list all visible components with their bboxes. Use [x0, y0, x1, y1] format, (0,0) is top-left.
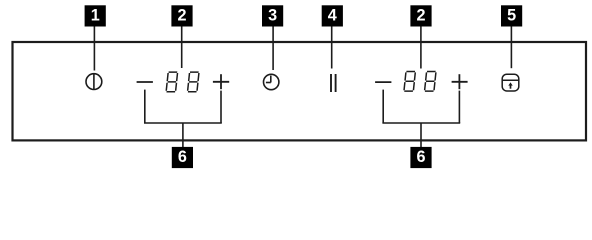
- bracket left: stem to label 6: [182, 123, 184, 147]
- callout label 2 (right): [410, 5, 431, 26]
- callout label 5: [501, 5, 522, 26]
- bracket right: stem to label 6: [420, 123, 422, 147]
- bracket right: minus branch: [382, 90, 384, 123]
- leader line from label 4 to pause symbol: [331, 26, 333, 68]
- left seven-segment display digit 8 (units): [188, 72, 199, 92]
- bracket left: plus branch: [220, 91, 222, 123]
- power (on/off) sensor icon: [86, 74, 102, 90]
- callout label 6 (right): [410, 147, 431, 168]
- leader line from label 2 (right) to right display: [420, 26, 422, 68]
- bracket right: horizontal bar: [382, 122, 460, 124]
- svg-text:2: 2: [177, 6, 186, 24]
- bracket left: horizontal bar: [144, 122, 222, 124]
- svg-text:3: 3: [268, 6, 277, 24]
- bracket right: plus branch: [458, 91, 460, 123]
- right seven-segment display digit 8 (tens): [404, 72, 415, 92]
- bracket left: minus branch: [144, 90, 146, 123]
- minus sensor (left): [137, 81, 153, 83]
- minus sensor (right): [375, 81, 391, 83]
- left seven-segment display digit 8 (tens): [166, 72, 177, 92]
- svg-text:6: 6: [178, 148, 187, 166]
- leader line from label 2 (left) to left display: [181, 26, 183, 68]
- svg-text:1: 1: [91, 6, 100, 24]
- svg-text:6: 6: [416, 148, 425, 166]
- leader line from label 3 to timer symbol: [272, 26, 274, 70]
- svg-text:2: 2: [416, 6, 425, 24]
- leader line from label 1 to power symbol: [93, 26, 95, 70]
- svg-text:5: 5: [507, 6, 516, 24]
- key lock arrow head: [508, 82, 512, 85]
- callout label 4: [322, 5, 343, 26]
- plus sensor (left): [213, 74, 229, 89]
- key lock sensor icon: [502, 74, 519, 91]
- leader line from label 5 to lock symbol: [510, 26, 512, 68]
- callout label 6 (left): [172, 147, 193, 168]
- pause sensor icon (two bars): [331, 74, 336, 92]
- control panel outline: [13, 42, 587, 140]
- callout label 3: [262, 5, 283, 26]
- right seven-segment display digit 8 (units): [425, 72, 436, 92]
- timer (clock) sensor icon: [264, 74, 279, 89]
- plus sensor (right): [452, 74, 468, 89]
- callout label 1: [85, 5, 106, 26]
- svg-text:4: 4: [328, 6, 337, 24]
- callout label 2 (left): [171, 5, 192, 26]
